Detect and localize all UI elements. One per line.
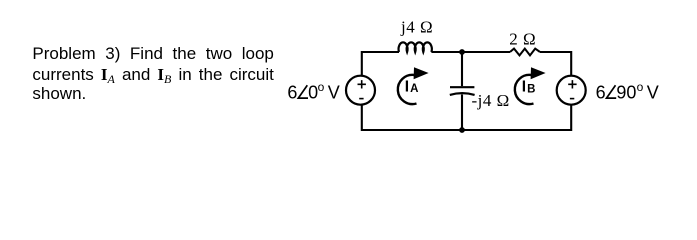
svg-text:V: V <box>647 83 659 103</box>
svg-text:I: I <box>405 78 409 95</box>
resistor R 2 ohm <box>510 49 540 56</box>
wire top rail middle segment <box>431 51 510 53</box>
problem statement text <box>32 44 274 104</box>
svg-text:2 Ω: 2 Ω <box>509 29 536 48</box>
wire right branch bottom <box>570 105 572 131</box>
voltage source V2 plus sign <box>568 80 576 88</box>
inductor j4 ohm <box>399 42 432 52</box>
node junction top <box>459 49 465 55</box>
wire bottom rail <box>362 129 571 131</box>
svg-text:j4 Ω: j4 Ω <box>400 17 433 36</box>
svg-text:A: A <box>410 83 418 95</box>
loop current IB arrowhead <box>531 67 546 79</box>
voltage source V2 circle <box>557 76 586 105</box>
wire left branch bottom <box>361 105 363 131</box>
voltage source V1 minus sign <box>359 98 363 100</box>
svg-text:-j4 Ω: -j4 Ω <box>472 91 510 110</box>
wire right branch top <box>570 51 572 75</box>
wire middle branch top <box>461 52 463 86</box>
loop current IB arc <box>515 75 534 104</box>
wire middle branch bottom <box>461 95 463 131</box>
capacitor -j4 ohm bottom plate (curved) <box>450 93 475 95</box>
svg-text:B: B <box>527 83 535 95</box>
svg-text:I: I <box>522 78 526 95</box>
capacitor -j4 ohm top plate <box>450 86 474 88</box>
svg-text:6: 6 <box>596 83 606 103</box>
svg-text:6: 6 <box>287 83 297 103</box>
wire top rail right segment <box>540 51 571 53</box>
angle symbol right <box>607 85 617 98</box>
svg-text:o: o <box>318 80 325 94</box>
angle symbol left <box>298 85 308 98</box>
node junction bottom <box>459 127 465 133</box>
wire top rail left segment <box>362 51 399 53</box>
wire left branch top <box>361 51 363 75</box>
svg-text:V: V <box>328 83 340 103</box>
svg-text:o: o <box>637 80 644 94</box>
loop current IA arrowhead <box>414 67 429 79</box>
loop current IA arc <box>398 75 417 104</box>
voltage source V2 minus sign <box>570 98 574 100</box>
svg-text:90: 90 <box>616 83 636 103</box>
voltage source V1 plus sign <box>358 80 366 88</box>
voltage source V1 circle <box>346 76 375 105</box>
